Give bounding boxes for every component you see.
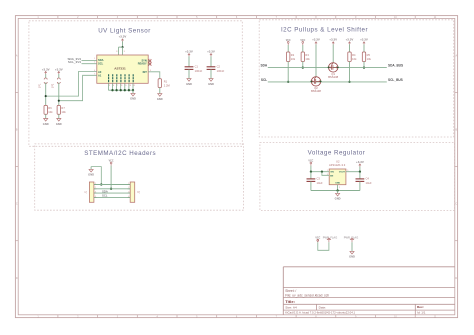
connector J2: [130, 182, 135, 202]
svg-text:AP2112K-3.3: AP2112K-3.3: [329, 163, 346, 167]
wire R6 to GND: [45, 114, 47, 118]
wire U2 GND pin: [337, 185, 339, 191]
junction R4-SCL: [348, 81, 350, 83]
junction GND rail: [336, 189, 338, 191]
U1 AS7331 sensor IC: [97, 55, 148, 83]
wire R2 to SCL: [287, 62, 289, 82]
wire JP2 to R7: [58, 83, 60, 106]
capacitor C1 100nF: [188, 66, 190, 68]
wire SCL line: [268, 81, 387, 83]
section box: I2C Pullups and Level Shifter: [259, 20, 454, 137]
no-connect READY: [148, 63, 151, 66]
resistor R1 2.2M: [158, 79, 161, 88]
wire SDA line: [268, 67, 387, 69]
wire A1 to jumper net: [59, 75, 97, 100]
capacitor C2 100nF: [210, 66, 212, 68]
svg-text:SCL: SCL: [102, 194, 108, 198]
wire A0 to jumper net: [46, 72, 97, 97]
capacitor C4 10uF: [359, 172, 361, 179]
resistor R2 10k: [287, 52, 290, 62]
wire VCC to PWR_FLAG: [318, 242, 329, 250]
junction R5-SDA: [363, 66, 365, 68]
svg-text:READY: READY: [138, 62, 147, 66]
svg-text:10k: 10k: [61, 110, 66, 114]
svg-text:+3.3V: +3.3V: [42, 67, 50, 71]
svg-text:R6: R6: [48, 106, 52, 110]
svg-text:10k: 10k: [48, 110, 53, 114]
svg-text:10k: 10k: [305, 57, 310, 61]
wire R5 to SDA: [363, 62, 365, 68]
svg-text:GND: GND: [157, 97, 163, 101]
section box: UV Light Sensor: [29, 21, 242, 147]
svg-text:1: 1: [128, 183, 129, 185]
svg-text:GND: GND: [335, 197, 341, 201]
ground below R1: [158, 94, 162, 97]
wire VIN: [311, 171, 329, 173]
svg-text:+3.3V: +3.3V: [185, 50, 193, 54]
svg-text:2: 2: [128, 187, 129, 189]
svg-text:+3.3V: +3.3V: [55, 67, 63, 71]
svg-text:EN: EN: [330, 175, 333, 177]
svg-text:GND: GND: [349, 255, 355, 259]
wire R3 to SDA: [302, 62, 304, 68]
wire GND rail: [311, 190, 360, 192]
junction VCC-VIN: [310, 171, 312, 173]
svg-text:SCL: SCL: [261, 78, 267, 82]
svg-text:GND: GND: [186, 82, 192, 86]
junction EN tap: [321, 171, 323, 173]
svg-text:2.2M: 2.2M: [164, 83, 170, 87]
resistor R3 10k: [301, 52, 304, 62]
resistor R5 10k: [362, 52, 365, 62]
wire INT to R1: [148, 72, 160, 79]
junction R3-SDA: [302, 66, 304, 68]
svg-text:Id: 1/1: Id: 1/1: [417, 311, 426, 315]
ground below C2: [209, 79, 213, 82]
wire header row SDA: [94, 192, 130, 194]
svg-text:U2: U2: [336, 159, 340, 163]
wire EN: [322, 172, 329, 176]
svg-text:C: C: [16, 203, 18, 206]
svg-text:SCL_BUS: SCL_BUS: [388, 78, 403, 82]
svg-text:KiCad E.D.A. kicad 7.0.2-6eb5: KiCad E.D.A. kicad 7.0.2-6eb501f42-172~u…: [285, 311, 355, 315]
junction A1 net: [58, 100, 60, 102]
svg-text:R1: R1: [164, 79, 168, 83]
wire R1 to GND: [159, 88, 161, 94]
wire R4 to SCL: [349, 62, 351, 82]
U2 AP2112K-3.3 regulator: [329, 169, 346, 185]
svg-text:A0: A0: [98, 70, 102, 74]
svg-text:I2C Pullups & Level Shifter: I2C Pullups & Level Shifter: [281, 26, 368, 33]
section box: Voltage Regulator: [260, 142, 455, 210]
svg-text:GND: GND: [43, 122, 49, 126]
transistor Q2 BSS138: [311, 77, 320, 86]
wire VOUT: [346, 171, 360, 173]
wire GND to row1: [91, 167, 101, 185]
resistor R7 10k: [57, 105, 60, 114]
svg-text:Sheet: /: Sheet: /: [285, 289, 296, 293]
svg-text:SCL_3V3: SCL_3V3: [68, 60, 81, 64]
junction VDD: [121, 46, 123, 48]
svg-text:+3.3V: +3.3V: [329, 38, 337, 42]
svg-text:R7: R7: [61, 106, 65, 110]
svg-text:JP2: JP2: [52, 83, 55, 88]
wire PWR_FLAG to GND: [351, 242, 353, 251]
junction A0 net: [45, 95, 47, 97]
ground at headers: [90, 167, 92, 170]
svg-text:C3: C3: [317, 177, 321, 181]
svg-text:+3.3V: +3.3V: [312, 38, 320, 42]
junction VCC row: [110, 188, 112, 190]
ground below C1: [187, 79, 191, 82]
svg-text:+3.3V: +3.3V: [119, 35, 127, 39]
svg-text:2: 2: [94, 61, 95, 63]
resistor R6 10k: [44, 105, 47, 114]
transistor Q1 BSS138: [329, 63, 338, 72]
svg-text:R2: R2: [291, 53, 295, 57]
svg-text:SCL: SCL: [98, 61, 104, 65]
svg-text:R5: R5: [367, 53, 371, 57]
svg-text:10k: 10k: [291, 57, 296, 61]
junction GND row: [100, 183, 102, 185]
svg-text:A1: A1: [98, 73, 102, 77]
wire header row VCC: [94, 188, 130, 190]
svg-text:10uF: 10uF: [366, 181, 372, 185]
svg-text:D: D: [455, 277, 457, 280]
svg-text:100nF: 100nF: [217, 69, 225, 73]
svg-text:4: 4: [95, 196, 96, 198]
svg-text:AS7331: AS7331: [114, 66, 126, 70]
svg-text:GND: GND: [208, 82, 214, 86]
svg-text:3: 3: [95, 192, 96, 194]
wire R7 to GND: [58, 114, 60, 118]
svg-text:R3: R3: [305, 53, 309, 57]
svg-text:STEMMA/I2C Headers: STEMMA/I2C Headers: [84, 150, 156, 157]
wire header row GND: [94, 184, 130, 186]
svg-text:+3.3V: +3.3V: [207, 50, 215, 54]
wire header row SCL: [94, 196, 130, 198]
svg-text:2: 2: [339, 187, 340, 189]
svg-text:10uF: 10uF: [317, 181, 323, 185]
junction VOUT-C4: [359, 171, 361, 173]
title block: [283, 266, 455, 268]
svg-text:Date:: Date:: [319, 305, 327, 309]
section box: STEMMA/I2C Headers: [35, 144, 244, 210]
wire VDD pins: [119, 46, 123, 48]
svg-text:GND: GND: [335, 183, 340, 185]
svg-text:SDA_BUS: SDA_BUS: [388, 64, 403, 68]
svg-text:+3.3V: +3.3V: [356, 160, 364, 164]
svg-text:BSS138: BSS138: [311, 89, 321, 93]
svg-text:4: 4: [128, 196, 129, 198]
svg-text:File: uv_adc_sensor.kicad_sch: File: uv_adc_sensor.kicad_sch: [285, 293, 329, 297]
ground below U1: [131, 93, 135, 96]
wire GND bus under U1: [108, 89, 133, 91]
svg-text:+3.3V: +3.3V: [360, 38, 368, 42]
svg-text:C2: C2: [217, 65, 221, 69]
connector J1: [89, 182, 94, 202]
svg-text:D: D: [16, 277, 18, 280]
svg-text:2: 2: [95, 187, 96, 189]
svg-text:R4: R4: [352, 53, 356, 57]
svg-text:GND: GND: [130, 97, 136, 101]
capacitor C3 10uF: [310, 172, 312, 179]
solder jumper JP1: [44, 78, 47, 80]
svg-text:100nF: 100nF: [195, 69, 203, 73]
svg-text:C4: C4: [366, 177, 370, 181]
ground below PWR_FLAG: [350, 251, 354, 254]
svg-text:Size: A4: Size: A4: [285, 305, 297, 309]
ground below U2: [336, 193, 340, 196]
svg-text:JP1: JP1: [39, 83, 42, 88]
svg-text:3: 3: [128, 192, 129, 194]
no-connect SYN: [148, 59, 151, 62]
svg-text:VIN: VIN: [330, 172, 334, 174]
svg-text:Title:: Title:: [285, 299, 295, 304]
svg-text:C1: C1: [195, 65, 199, 69]
svg-text:1: 1: [94, 58, 95, 60]
svg-text:VOUT: VOUT: [339, 172, 346, 174]
svg-text:+3.3V: +3.3V: [346, 38, 354, 42]
svg-text:10k: 10k: [367, 57, 372, 61]
svg-text:Rev:: Rev:: [417, 305, 424, 309]
svg-text:BSS138: BSS138: [328, 75, 338, 79]
wire JP1 to R6: [45, 83, 47, 106]
svg-text:10k: 10k: [352, 57, 357, 61]
ground below R6: [44, 119, 48, 122]
svg-text:INT: INT: [143, 70, 148, 74]
resistor R4 10k: [348, 52, 351, 62]
svg-text:Voltage Regulator: Voltage Regulator: [308, 150, 366, 157]
svg-text:C: C: [455, 203, 457, 206]
ground below R7: [57, 119, 61, 122]
svg-text:1: 1: [95, 183, 96, 185]
svg-text:GND: GND: [88, 173, 94, 177]
junction R2-SCL: [287, 81, 289, 83]
svg-text:SDA: SDA: [260, 64, 267, 68]
svg-text:GND: GND: [56, 122, 62, 126]
solder jumper JP2: [57, 78, 60, 80]
